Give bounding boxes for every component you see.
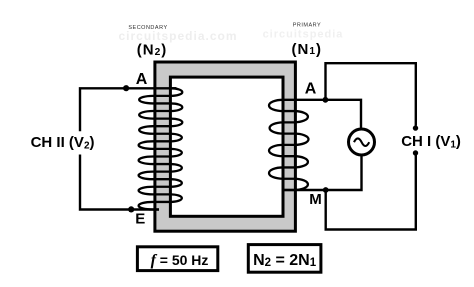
node CH I bottom (413, 150, 418, 155)
svg-text:(N2): (N2) (137, 41, 168, 58)
svg-text:PRIMARY: PRIMARY (293, 22, 321, 28)
svg-text:circuitspedia: circuitspedia (263, 29, 344, 41)
transformer core (155, 62, 296, 231)
svg-text:(N1): (N1) (292, 41, 323, 58)
wire: source bottom to M and CH I bottom rail (284, 151, 416, 230)
svg-text:SECONDARY: SECONDARY (128, 25, 167, 31)
wire: CH II left vertical and horizontals (80, 88, 177, 209)
AC source (349, 129, 375, 155)
svg-text:A: A (305, 80, 317, 97)
secondary winding N2 (139, 88, 183, 209)
svg-text:E: E (135, 210, 145, 227)
svg-text:f = 50 Hz: f = 50 Hz (151, 252, 209, 269)
svg-text:N2 = 2N1: N2 = 2N1 (253, 252, 317, 269)
svg-text:M: M (309, 191, 322, 208)
primary winding N1 (269, 100, 309, 190)
wire: primary A to source and CH I top rail (284, 63, 416, 128)
node A secondary (123, 85, 129, 91)
svg-text:A: A (136, 71, 148, 88)
box N2 = 2N1 (248, 245, 321, 273)
node E secondary (128, 206, 134, 212)
node M primary (323, 187, 329, 193)
node CH I top (413, 125, 418, 130)
node A primary (323, 97, 329, 103)
box f = 50 Hz (137, 247, 217, 271)
